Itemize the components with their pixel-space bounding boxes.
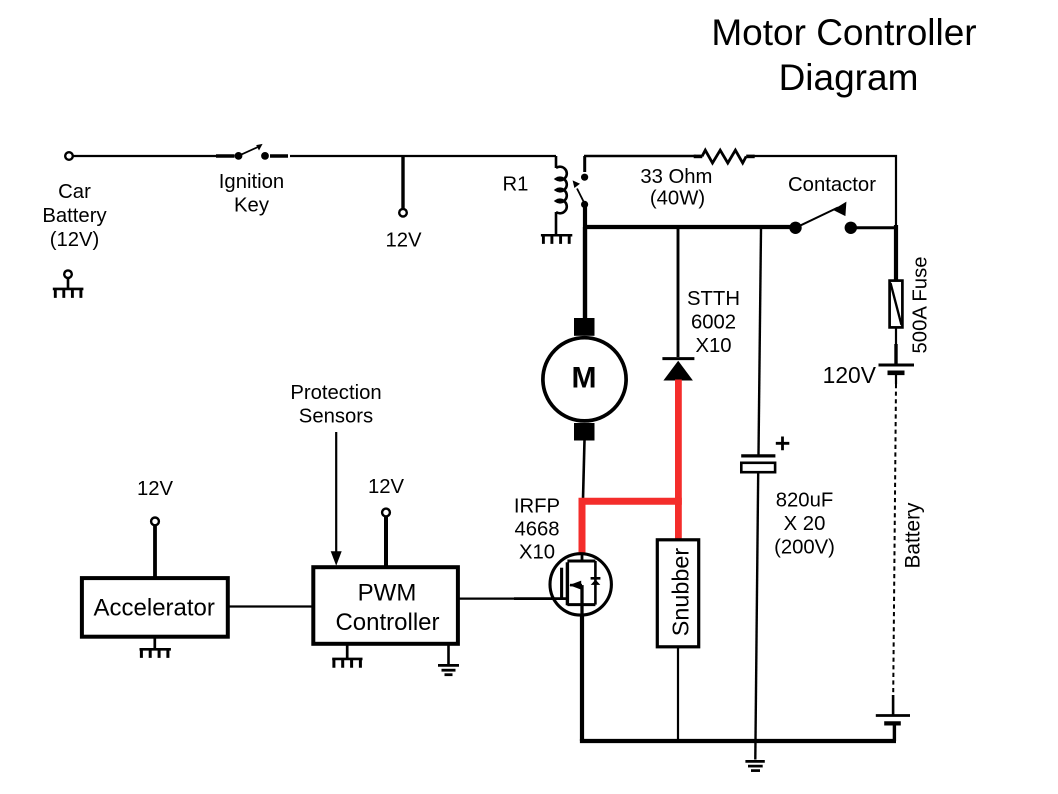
svg-text:Controller: Controller	[335, 609, 439, 636]
svg-text:Snubber: Snubber	[667, 548, 693, 637]
svg-text:X10: X10	[519, 541, 555, 563]
svg-text:500A Fuse: 500A Fuse	[910, 257, 932, 354]
svg-text:M: M	[572, 362, 597, 395]
svg-text:(40W): (40W)	[650, 187, 705, 209]
svg-text:PWM: PWM	[358, 580, 417, 607]
svg-text:(12V): (12V)	[50, 229, 100, 251]
svg-text:(200V): (200V)	[774, 537, 835, 559]
svg-text:820uF: 820uF	[776, 490, 834, 512]
svg-text:Accelerator: Accelerator	[94, 595, 215, 622]
svg-text:Key: Key	[234, 195, 270, 217]
svg-text:Battery: Battery	[42, 205, 107, 227]
svg-text:R1: R1	[503, 174, 529, 196]
svg-text:12V: 12V	[368, 476, 405, 498]
svg-text:33 Ohm: 33 Ohm	[640, 166, 712, 188]
svg-text:Diagram: Diagram	[779, 57, 919, 98]
svg-text:Sensors: Sensors	[299, 406, 373, 428]
svg-text:IRFP: IRFP	[514, 496, 560, 518]
svg-text:120V: 120V	[823, 362, 877, 388]
svg-text:12V: 12V	[385, 230, 422, 252]
svg-text:Motor Controller: Motor Controller	[711, 12, 976, 53]
svg-text:Battery: Battery	[902, 502, 925, 568]
svg-text:STTH: STTH	[687, 288, 740, 310]
svg-text:X10: X10	[695, 335, 731, 357]
svg-text:4668: 4668	[514, 519, 559, 541]
svg-text:Protection: Protection	[290, 382, 381, 404]
svg-text:Ignition: Ignition	[219, 171, 284, 193]
svg-text:Contactor: Contactor	[788, 174, 876, 196]
svg-text:X 20: X 20	[784, 513, 826, 535]
svg-text:Car: Car	[58, 181, 91, 203]
svg-text:6002: 6002	[691, 312, 736, 334]
svg-text:12V: 12V	[137, 478, 174, 500]
